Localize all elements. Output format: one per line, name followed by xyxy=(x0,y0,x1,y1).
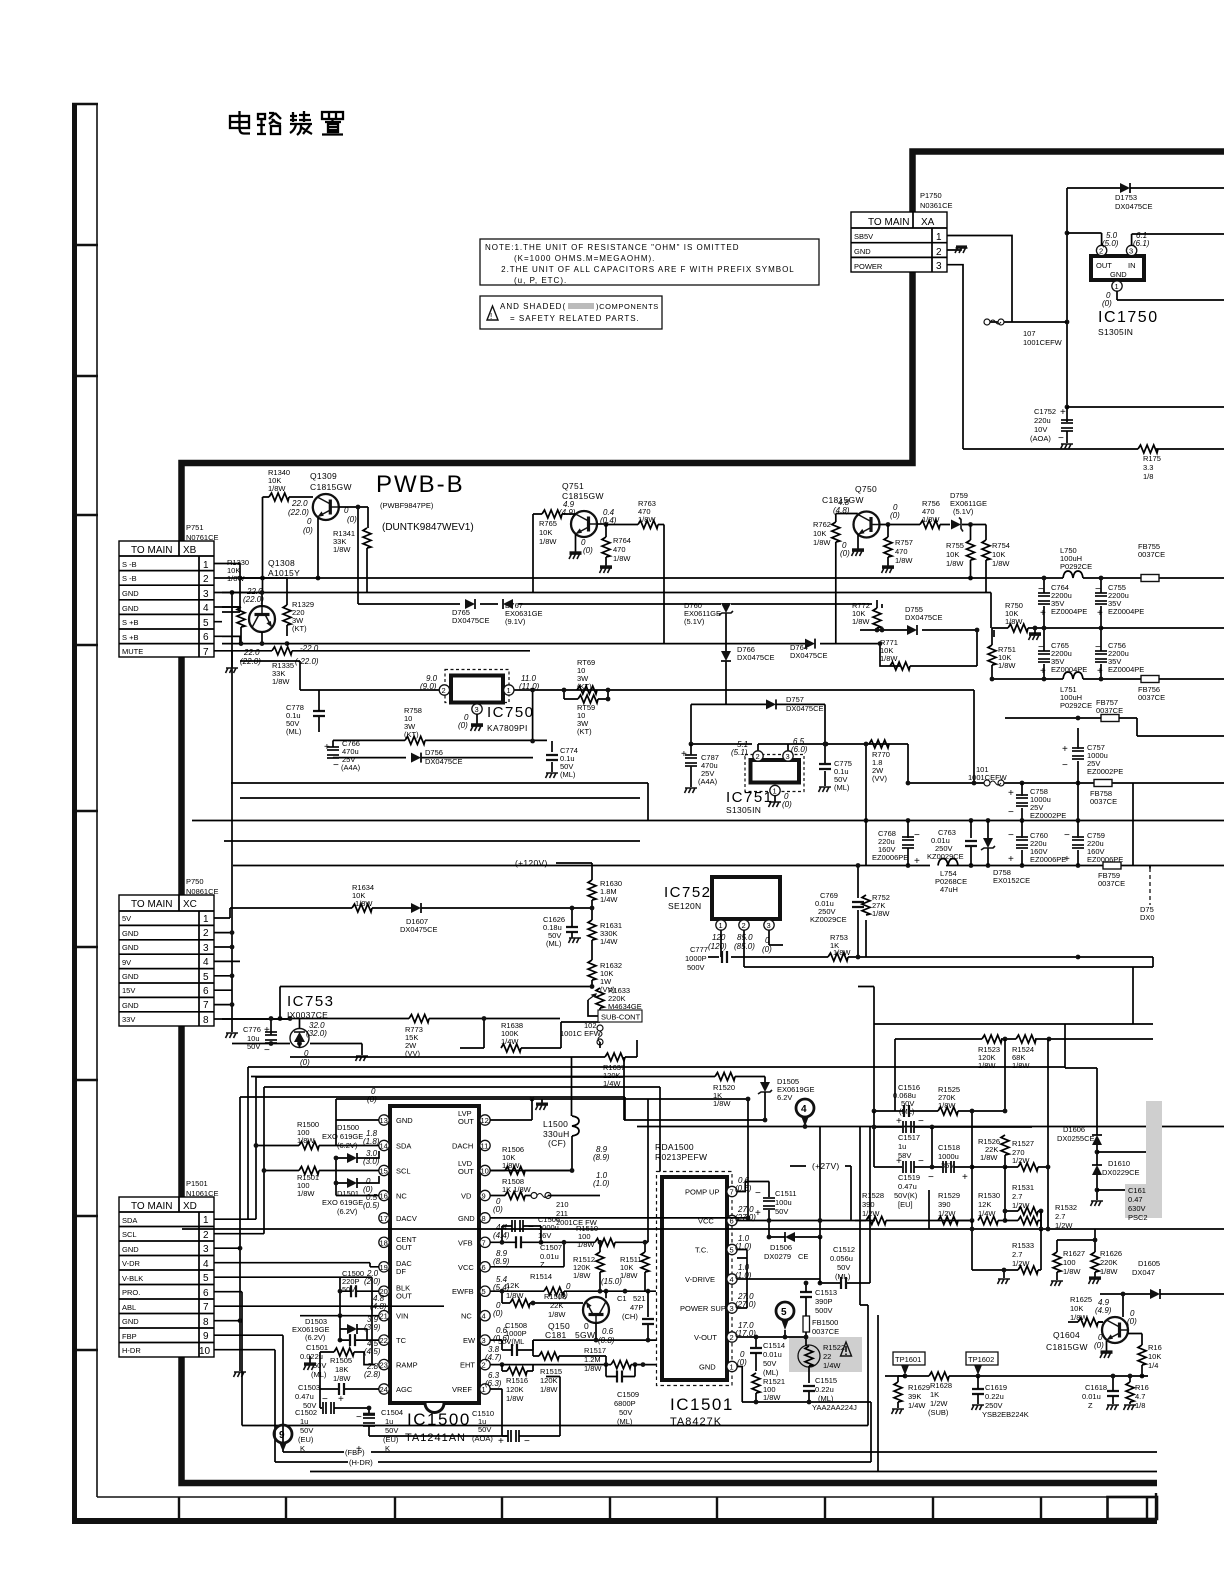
svg-text:+: + xyxy=(1040,608,1046,619)
balloon 4 xyxy=(796,1099,814,1117)
svg-text:OUT: OUT xyxy=(396,1243,412,1252)
svg-text:(15.0): (15.0) xyxy=(601,1277,622,1286)
wire NC16 xyxy=(336,1183,379,1196)
svg-text:16: 16 xyxy=(380,1192,388,1201)
jungle IC1500 TA1241AN xyxy=(379,1106,490,1444)
svg-text:4: 4 xyxy=(730,1275,734,1284)
safety box xyxy=(480,296,662,329)
wire V-DR to IC xyxy=(370,1263,379,1365)
svg-text:DX0475CE: DX0475CE xyxy=(1115,202,1153,211)
svg-text:R1628: R1628 xyxy=(930,1381,952,1390)
svg-text:V-DR: V-DR xyxy=(122,1259,141,1268)
svg-text:(8.9): (8.9) xyxy=(593,1153,610,1162)
svg-text:V-DRIVE: V-DRIVE xyxy=(685,1275,715,1284)
svg-text:4: 4 xyxy=(203,1259,209,1270)
svg-text:6.2V: 6.2V xyxy=(777,1093,792,1102)
svg-text:210: 210 xyxy=(556,1200,569,1209)
svg-text:10K: 10K xyxy=(813,529,826,538)
svg-text:10K: 10K xyxy=(1148,1352,1161,1361)
svg-text:(2.8): (2.8) xyxy=(364,1370,381,1379)
svg-text:1/8W: 1/8W xyxy=(946,559,964,568)
svg-text:250V: 250V xyxy=(985,1401,1003,1410)
wire 841 rail xyxy=(224,840,640,842)
svg-text:(6.2V): (6.2V) xyxy=(337,1141,358,1150)
svg-text:16V: 16V xyxy=(538,1231,551,1240)
svg-text:POWER: POWER xyxy=(854,262,883,271)
svg-text:DX0255CE: DX0255CE xyxy=(1057,1134,1095,1143)
svg-text:−: − xyxy=(264,1045,270,1056)
wire Q751 emitter xyxy=(575,534,577,553)
svg-text:(0): (0) xyxy=(558,1291,568,1300)
svg-text:EW: EW xyxy=(463,1336,476,1345)
svg-text:VREF: VREF xyxy=(452,1385,472,1394)
svg-text:2: 2 xyxy=(203,1230,209,1241)
svg-text:1/8W: 1/8W xyxy=(272,677,290,686)
svg-text:L1500: L1500 xyxy=(543,1119,568,1129)
置 xyxy=(322,112,343,135)
svg-text:EZ0004PE: EZ0004PE xyxy=(1051,607,1087,616)
svg-text:1/8W: 1/8W xyxy=(355,899,373,908)
svg-text:OUT: OUT xyxy=(458,1117,474,1126)
svg-text:5: 5 xyxy=(482,1287,486,1296)
wire pin12 riser xyxy=(490,1099,532,1120)
NOTE box xyxy=(480,239,819,285)
wire 1043 rail xyxy=(232,1044,362,1056)
svg-text:EZ0002PE: EZ0002PE xyxy=(1087,767,1123,776)
svg-text:R1528: R1528 xyxy=(862,1191,884,1200)
connector TO MAIN XD xyxy=(119,1197,222,1357)
svg-text:C776: C776 xyxy=(243,1025,261,1034)
svg-text:(A4A): (A4A) xyxy=(698,777,718,786)
svg-text:1/8W: 1/8W xyxy=(872,909,890,918)
svg-text:TO MAIN: TO MAIN xyxy=(131,1201,172,1212)
inductor L754 xyxy=(938,859,958,866)
svg-text:Z: Z xyxy=(1088,1401,1093,1410)
svg-text:500V: 500V xyxy=(815,1306,833,1315)
svg-text:(0): (0) xyxy=(840,549,850,558)
svg-text:TP1602: TP1602 xyxy=(968,1355,994,1364)
svg-text:10: 10 xyxy=(481,1167,489,1176)
svg-text:1: 1 xyxy=(203,560,209,571)
wire XC1 rail xyxy=(222,908,592,1019)
svg-text:SB5V: SB5V xyxy=(854,232,873,241)
svg-text:0: 0 xyxy=(765,936,770,945)
svg-text:R1515: R1515 xyxy=(540,1367,562,1376)
diode D757 xyxy=(766,699,776,709)
svg-text:9: 9 xyxy=(482,1192,486,1201)
svg-text:3: 3 xyxy=(203,589,209,600)
wire XD pin connections xyxy=(222,1219,868,1462)
wire 783 rail xyxy=(231,690,1224,821)
jumper 107 xyxy=(984,319,1004,325)
svg-text:6: 6 xyxy=(203,986,209,997)
wires xyxy=(992,578,1224,679)
svg-text:+: + xyxy=(914,856,920,867)
svg-text:(3.0): (3.0) xyxy=(363,1157,380,1166)
svg-text:8: 8 xyxy=(203,1015,209,1026)
svg-text:(0): (0) xyxy=(493,1205,503,1214)
svg-text:DX0229CE: DX0229CE xyxy=(1102,1168,1140,1177)
svg-text:(DUNTK9847WEV1): (DUNTK9847WEV1) xyxy=(382,522,474,533)
svg-text:3.3: 3.3 xyxy=(1143,463,1153,472)
svg-text:FBP: FBP xyxy=(122,1332,137,1341)
svg-text:D1605: D1605 xyxy=(1138,1259,1160,1268)
svg-text:−: − xyxy=(914,830,920,841)
svg-text:RAMP: RAMP xyxy=(396,1361,418,1370)
svg-text:(A4A): (A4A) xyxy=(341,763,361,772)
wire VIN 21 xyxy=(300,1291,379,1316)
svg-text:AGC: AGC xyxy=(396,1385,413,1394)
svg-text:R1530: R1530 xyxy=(978,1191,1000,1200)
svg-text:R1517: R1517 xyxy=(584,1346,606,1355)
svg-text:Q1309: Q1309 xyxy=(310,471,337,481)
svg-text:D1753: D1753 xyxy=(1115,193,1137,202)
svg-text:H-DR: H-DR xyxy=(122,1346,141,1355)
svg-text:1/4: 1/4 xyxy=(1148,1361,1158,1370)
test point TP1602 xyxy=(966,1352,998,1365)
svg-text:(5.0): (5.0) xyxy=(1102,239,1119,248)
svg-text:EXO 619GE: EXO 619GE xyxy=(322,1198,363,1207)
svg-text:10K: 10K xyxy=(1070,1304,1083,1313)
svg-text:P0292CE: P0292CE xyxy=(1060,701,1092,710)
svg-text:5: 5 xyxy=(203,1273,209,1284)
svg-text:23: 23 xyxy=(380,1361,388,1370)
svg-text:13: 13 xyxy=(380,1116,388,1125)
svg-text:C1501: C1501 xyxy=(306,1343,328,1352)
svg-text:(0.5): (0.5) xyxy=(363,1201,380,1210)
diode D1505 xyxy=(758,1082,772,1094)
svg-text:EWFB: EWFB xyxy=(452,1287,474,1296)
svg-text:5: 5 xyxy=(781,1307,787,1318)
ground xyxy=(231,663,233,668)
svg-text:EX0152CE: EX0152CE xyxy=(993,876,1030,885)
svg-text:+: + xyxy=(1097,666,1103,677)
svg-text:R175: R175 xyxy=(1143,454,1161,463)
wire D766 vertical xyxy=(725,613,727,704)
resistor R1622 xyxy=(1128,1334,1142,1377)
wire C763/D758 verticals xyxy=(971,821,1150,869)
svg-text:C1619: C1619 xyxy=(985,1383,1007,1392)
svg-text:TO MAIN: TO MAIN xyxy=(868,217,909,228)
svg-text:+: + xyxy=(1097,608,1103,619)
svg-text:(0): (0) xyxy=(890,511,900,520)
svg-text:DX0475CE: DX0475CE xyxy=(905,613,943,622)
resistor R1751 xyxy=(1138,445,1158,453)
ruler ticks xyxy=(72,104,98,1350)
inductor L751 xyxy=(1063,672,1083,679)
svg-text:10V: 10V xyxy=(1034,425,1047,434)
svg-text:V-BLK: V-BLK xyxy=(122,1274,143,1283)
svg-text:0: 0 xyxy=(304,1049,309,1058)
svg-text:2: 2 xyxy=(936,247,942,258)
svg-text:R16: R16 xyxy=(1135,1383,1149,1392)
wires diode row xyxy=(222,600,977,630)
ground near R750 xyxy=(1029,632,1041,636)
svg-text:5: 5 xyxy=(203,618,209,629)
svg-text:−: − xyxy=(333,760,339,771)
svg-text:22: 22 xyxy=(380,1336,388,1345)
wire D757 net xyxy=(691,704,825,744)
svg-text:1/4W: 1/4W xyxy=(823,1361,841,1370)
wire Q750 emitter xyxy=(857,534,859,550)
svg-text:+: + xyxy=(896,1156,902,1167)
svg-text:2: 2 xyxy=(203,574,209,585)
svg-text:85.0: 85.0 xyxy=(737,933,753,942)
wire D1753 rail xyxy=(1067,188,1224,407)
svg-text:0037CE: 0037CE xyxy=(1098,879,1125,888)
svg-text:1/8W: 1/8W xyxy=(540,1385,558,1394)
svg-text:18: 18 xyxy=(380,1238,388,1247)
svg-text:1/8W: 1/8W xyxy=(978,1061,996,1070)
svg-text:1/8W: 1/8W xyxy=(1005,617,1023,626)
svg-text:1u: 1u xyxy=(898,1142,906,1151)
svg-text:12: 12 xyxy=(481,1116,489,1125)
svg-text:0.22u: 0.22u xyxy=(985,1392,1004,1401)
svg-text:5: 5 xyxy=(203,972,209,983)
wire Q751 base to R764/R763 xyxy=(597,523,606,525)
svg-text:GND: GND xyxy=(854,247,871,256)
svg-text:VIN: VIN xyxy=(396,1312,409,1321)
svg-text:1/8W: 1/8W xyxy=(577,1240,595,1249)
svg-text:C1519: C1519 xyxy=(898,1173,920,1182)
svg-text:(KT): (KT) xyxy=(577,727,592,736)
svg-text:C1752: C1752 xyxy=(1034,407,1056,416)
svg-text:IC752: IC752 xyxy=(664,884,712,901)
svg-text:−: − xyxy=(1008,830,1014,841)
svg-text:1: 1 xyxy=(936,232,942,243)
svg-text:50V: 50V xyxy=(837,1263,850,1272)
svg-text:0.01u: 0.01u xyxy=(1082,1392,1101,1401)
svg-text:C1507: C1507 xyxy=(540,1243,562,1252)
svg-text:9: 9 xyxy=(279,1430,285,1441)
svg-text:(9.0): (9.0) xyxy=(420,682,437,691)
bottom ruler end cell xyxy=(1108,1497,1158,1519)
svg-text:DF: DF xyxy=(396,1267,406,1276)
wire pin7 pomp up xyxy=(737,1182,851,1238)
svg-text:D1506: D1506 xyxy=(770,1243,792,1252)
diode D758 (zener) xyxy=(981,838,995,850)
svg-text:390: 390 xyxy=(938,1200,951,1209)
svg-text:GND: GND xyxy=(122,929,139,938)
wire R1637 row xyxy=(290,1040,637,1057)
svg-text:R1516: R1516 xyxy=(506,1376,528,1385)
svg-text:P1501: P1501 xyxy=(186,1179,208,1188)
svg-text:XC: XC xyxy=(183,899,197,910)
svg-text:DX0279: DX0279 xyxy=(764,1252,791,1261)
bottom ruler thin top line xyxy=(97,1496,1157,1498)
svg-text:1: 1 xyxy=(203,914,209,925)
svg-text:+: + xyxy=(755,1208,761,1219)
svg-text:(22.0): (22.0) xyxy=(243,595,264,604)
svg-text:100: 100 xyxy=(1063,1258,1076,1267)
svg-text:(CF): (CF) xyxy=(548,1138,566,1148)
svg-text:390P: 390P xyxy=(815,1297,833,1306)
svg-text:4.7: 4.7 xyxy=(1135,1392,1145,1401)
svg-text:1/4W: 1/4W xyxy=(600,895,618,904)
svg-text:(H-DR): (H-DR) xyxy=(349,1458,373,1467)
svg-text:100u: 100u xyxy=(775,1198,792,1207)
svg-text:1/8: 1/8 xyxy=(1143,472,1153,481)
wire right lower trunk xyxy=(928,1190,930,1229)
svg-text:GND: GND xyxy=(122,1245,139,1254)
connector TO MAIN XB xyxy=(119,541,222,658)
svg-text:D757: D757 xyxy=(786,695,804,704)
svg-text:10K: 10K xyxy=(992,550,1005,559)
svg-text:0: 0 xyxy=(307,517,312,526)
svg-text:8: 8 xyxy=(203,1317,209,1328)
svg-text:VD: VD xyxy=(461,1192,472,1201)
wire 865 rail xyxy=(233,865,1224,867)
svg-text:3: 3 xyxy=(730,1304,734,1313)
svg-text:R755: R755 xyxy=(946,541,964,550)
svg-text:1: 1 xyxy=(507,686,511,695)
svg-text:DX0475CE: DX0475CE xyxy=(452,616,490,625)
svg-text:(120): (120) xyxy=(708,942,727,951)
svg-text:50V: 50V xyxy=(342,1285,355,1294)
svg-text:GND: GND xyxy=(458,1214,475,1223)
svg-text:GND: GND xyxy=(122,1001,139,1010)
svg-text:+: + xyxy=(1008,854,1014,865)
svg-text:)COMPONENTS: )COMPONENTS xyxy=(596,302,659,311)
ferrite bead FB757 xyxy=(1101,715,1119,722)
svg-text:P1750: P1750 xyxy=(920,191,942,200)
svg-text:1: 1 xyxy=(203,1215,209,1226)
svg-text:P751: P751 xyxy=(186,523,204,532)
svg-text:S -B: S -B xyxy=(122,574,137,583)
svg-text:24: 24 xyxy=(380,1385,388,1394)
svg-text:(u, P, ETC).: (u, P, ETC). xyxy=(485,276,567,285)
svg-text:SCL: SCL xyxy=(122,1230,137,1239)
svg-text:1/8W: 1/8W xyxy=(613,554,631,563)
svg-text:−: − xyxy=(918,1156,924,1167)
regulator IC751 xyxy=(726,737,808,815)
svg-text:1/8W: 1/8W xyxy=(833,948,851,957)
svg-text:DX047: DX047 xyxy=(1132,1268,1155,1277)
svg-text:Q1604: Q1604 xyxy=(1053,1330,1080,1340)
ferrite bead FB759 xyxy=(1103,862,1121,869)
left pins 13..24 xyxy=(379,1115,389,1125)
svg-text:50V: 50V xyxy=(385,1426,398,1435)
svg-text:DACH: DACH xyxy=(452,1142,473,1151)
svg-text:1K: 1K xyxy=(930,1390,939,1399)
wire Q1309 xyxy=(263,497,369,604)
svg-text:1/4W: 1/4W xyxy=(501,1037,519,1046)
svg-text:GND: GND xyxy=(122,604,139,613)
svg-text:0037CE: 0037CE xyxy=(1096,706,1123,715)
wire right edge verticals xyxy=(1078,957,1153,967)
svg-text:1: 1 xyxy=(1115,282,1119,291)
svg-text:470: 470 xyxy=(895,547,908,556)
svg-text:22.0: 22.0 xyxy=(291,499,308,508)
svg-text:R764: R764 xyxy=(613,536,631,545)
svg-text:IC1750: IC1750 xyxy=(1098,309,1159,326)
svg-text:1000P: 1000P xyxy=(685,954,707,963)
svg-text:15: 15 xyxy=(380,1167,388,1176)
svg-text:17: 17 xyxy=(380,1214,388,1223)
svg-text:(ML): (ML) xyxy=(311,1370,327,1379)
svg-text:C1504: C1504 xyxy=(381,1408,403,1417)
svg-text:DX0: DX0 xyxy=(1140,913,1155,922)
svg-text:(22.0): (22.0) xyxy=(288,508,309,517)
svg-text:S +B: S +B xyxy=(122,618,138,627)
svg-text:CE: CE xyxy=(798,1252,808,1261)
svg-text:C1618: C1618 xyxy=(1085,1383,1107,1392)
svg-text:-22.0: -22.0 xyxy=(300,644,319,653)
svg-text:D756: D756 xyxy=(425,748,443,757)
svg-text:VFB: VFB xyxy=(458,1238,473,1247)
resistor R770 xyxy=(869,740,889,748)
svg-text:(4.7): (4.7) xyxy=(485,1353,502,1362)
svg-text:1001C EFW: 1001C EFW xyxy=(560,1029,602,1038)
svg-text:1/4W: 1/4W xyxy=(603,1079,621,1088)
svg-text:(ML): (ML) xyxy=(835,1272,851,1281)
svg-text:1/8W: 1/8W xyxy=(333,545,351,554)
svg-text:(CH): (CH) xyxy=(622,1312,638,1321)
svg-text:DX0475CE: DX0475CE xyxy=(786,704,824,713)
wire Q750 base rail xyxy=(880,525,987,593)
svg-text:22: 22 xyxy=(823,1352,831,1361)
right pins 12..1 xyxy=(480,1115,490,1125)
svg-text:R754: R754 xyxy=(992,541,1010,550)
ferrite bead FB756 xyxy=(1141,676,1159,683)
svg-text:ABL: ABL xyxy=(122,1303,136,1312)
wire R1520 row 1076 xyxy=(251,1077,765,1083)
wire bottom right thin rails xyxy=(310,1127,1157,1472)
jumper 210/211 xyxy=(531,1193,551,1199)
wire IC750 row xyxy=(300,690,974,772)
svg-text:+: + xyxy=(896,1116,902,1127)
svg-text:GND: GND xyxy=(122,589,139,598)
svg-text:2: 2 xyxy=(203,928,209,939)
svg-text:9V: 9V xyxy=(122,958,131,967)
svg-text:TP1601: TP1601 xyxy=(895,1355,921,1364)
svg-text:2: 2 xyxy=(730,1333,734,1342)
svg-text:(ML): (ML) xyxy=(818,1394,834,1403)
svg-text:R762: R762 xyxy=(813,520,831,529)
svg-text:390: 390 xyxy=(862,1200,875,1209)
connector TO MAIN XA xyxy=(851,212,955,272)
vertical deflection IC1501 TA8427K xyxy=(657,1172,757,1429)
svg-text:R1629: R1629 xyxy=(908,1383,930,1392)
svg-text:SUB-CONT: SUB-CONT xyxy=(601,1013,641,1022)
svg-text:C1513: C1513 xyxy=(815,1288,837,1297)
svg-text:107: 107 xyxy=(1023,329,1036,338)
svg-text:C181: C181 xyxy=(545,1330,567,1340)
svg-text:1/8W: 1/8W xyxy=(297,1189,315,1198)
gray shaded capacitor C161x xyxy=(1146,1101,1162,1218)
wire IC751 rail xyxy=(691,744,908,783)
svg-text:R765: R765 xyxy=(539,519,557,528)
svg-text:10K: 10K xyxy=(946,550,959,559)
svg-text:4: 4 xyxy=(482,1312,486,1321)
svg-text:(6.2V): (6.2V) xyxy=(337,1207,358,1216)
svg-text:500V: 500V xyxy=(687,963,705,972)
svg-text:Q750: Q750 xyxy=(855,484,877,494)
svg-text:1/4W: 1/4W xyxy=(600,937,618,946)
svg-text:(ML): (ML) xyxy=(834,783,850,792)
svg-text:(0): (0) xyxy=(762,945,772,954)
svg-text:EZ0004PE: EZ0004PE xyxy=(1108,607,1144,616)
svg-text:+: + xyxy=(962,1172,968,1183)
svg-text:2.7: 2.7 xyxy=(1055,1212,1065,1221)
svg-text:(6.3): (6.3) xyxy=(485,1379,502,1388)
diode D1506 xyxy=(785,1232,795,1242)
svg-text:6800P: 6800P xyxy=(614,1399,636,1408)
svg-text:1/8W: 1/8W xyxy=(880,654,898,663)
wire R752/C769 hang xyxy=(865,744,867,866)
right rails 1024/1039 xyxy=(858,987,1153,1112)
ground next to XC xyxy=(231,1026,233,1032)
